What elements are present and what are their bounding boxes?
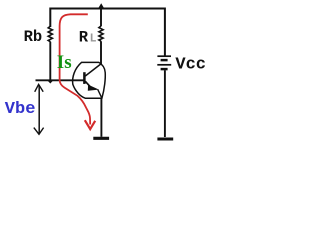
svg-text:Vbe: Vbe bbox=[5, 100, 36, 119]
svg-text:L: L bbox=[90, 32, 97, 45]
transistor Q1 collector diagonal bbox=[85, 64, 101, 76]
ground bar right (battery) bbox=[157, 137, 173, 140]
wire RL top lead bbox=[100, 9, 102, 27]
resistor RL (zigzag) bbox=[99, 26, 103, 41]
wire top rail and outer loop (Vcc net) bbox=[50, 9, 165, 57]
resistor Rb (zigzag) bbox=[48, 26, 52, 42]
wire emitter lead down bbox=[100, 98, 102, 137]
junction arrow at Rb/base node bbox=[48, 81, 53, 84]
transistor Q1 emitter arrowhead bbox=[88, 85, 99, 91]
svg-text:R: R bbox=[79, 29, 89, 47]
svg-text:Is: Is bbox=[57, 52, 72, 73]
wire battery negative lead down bbox=[164, 70, 166, 137]
wire Rb bottom lead bbox=[49, 42, 51, 81]
svg-text:Vcc: Vcc bbox=[175, 55, 206, 74]
wire emitter link to lead bbox=[98, 90, 102, 98]
current path Is arrowhead (red) bbox=[85, 120, 95, 129]
transistor Q1 circle bbox=[73, 62, 106, 98]
ground bar left (emitter) bbox=[93, 137, 109, 140]
transistor Q1 base bar bbox=[83, 72, 86, 84]
measure arrow Vbe (double-headed vertical) bbox=[34, 84, 44, 134]
wire collector lead bbox=[100, 41, 102, 64]
battery Vcc plates bbox=[157, 56, 171, 69]
wire base net (horizontal) bbox=[36, 79, 86, 81]
current path Is (red curve) bbox=[60, 14, 91, 124]
svg-text:Rb: Rb bbox=[24, 28, 43, 46]
arrow up at RL/top-rail junction bbox=[98, 3, 105, 9]
transistor Q1 emitter diagonal bbox=[85, 81, 91, 87]
